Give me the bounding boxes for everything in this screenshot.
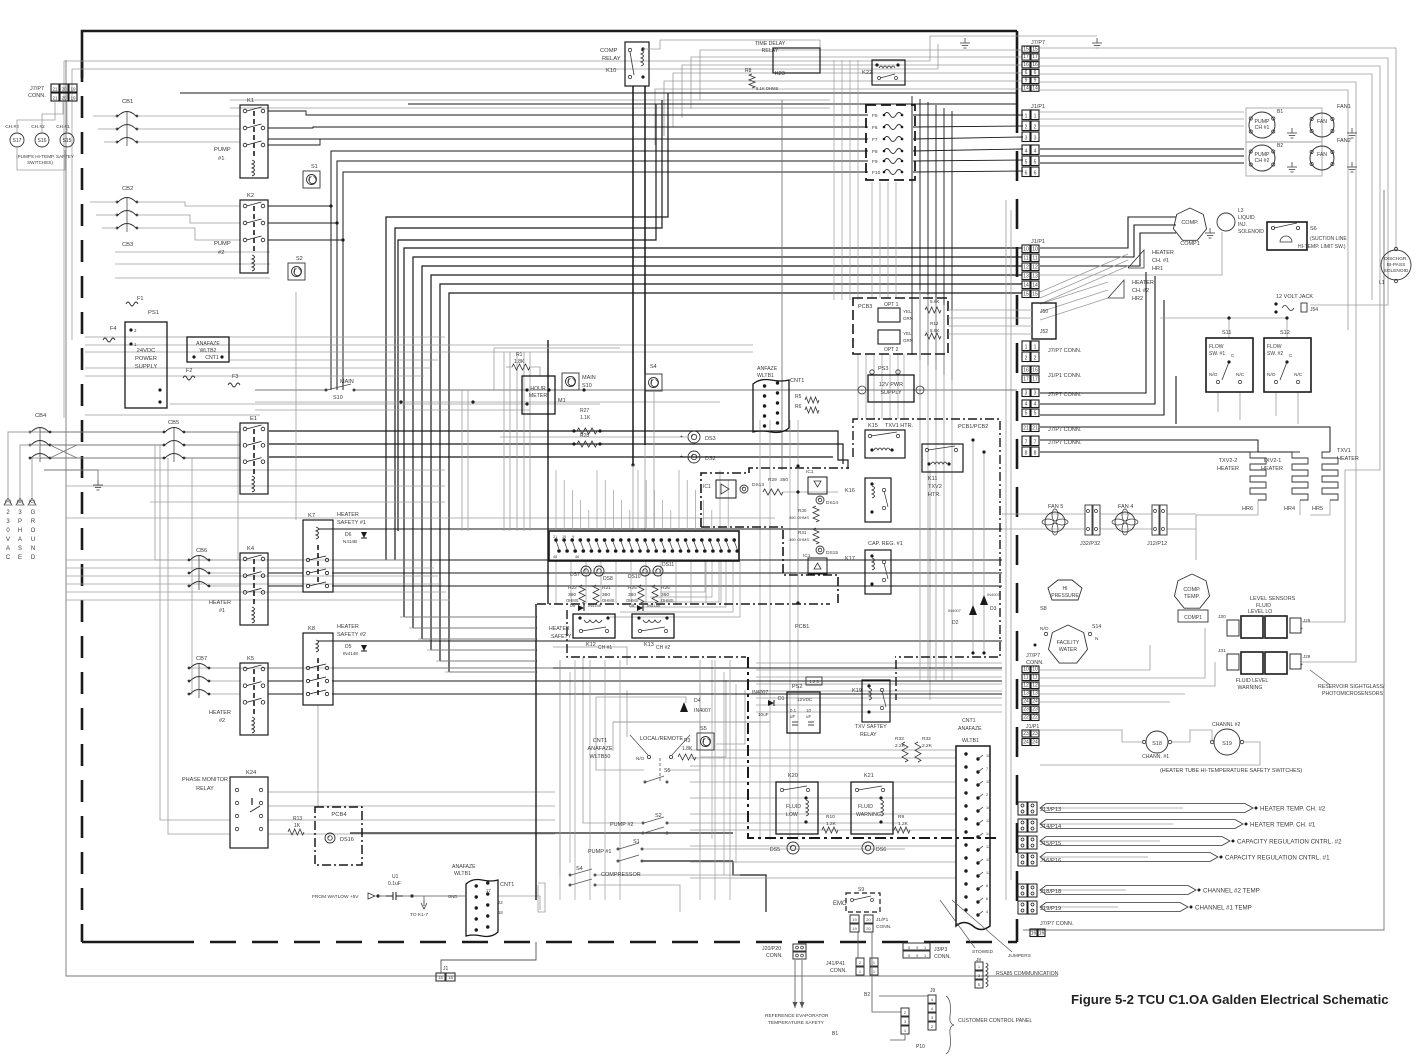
svg-text:R30: R30 <box>798 508 807 513</box>
svg-text:U1: U1 <box>392 874 399 880</box>
svg-text:4: 4 <box>986 910 988 914</box>
svg-text:LOCAL/REMOTE: LOCAL/REMOTE <box>640 736 683 742</box>
svg-text:3: 3 <box>1025 391 1028 397</box>
svg-text:PHASE MONITOR: PHASE MONITOR <box>182 777 228 783</box>
svg-text:+: + <box>680 434 683 440</box>
svg-text:C: C <box>1289 353 1293 359</box>
indicator DS11 <box>653 566 663 576</box>
wire WLTB50 risers below <box>555 561 557 604</box>
svg-text:J29: J29 <box>1303 654 1311 659</box>
svg-text:R3: R3 <box>684 738 691 744</box>
svg-text:+: + <box>1300 626 1303 632</box>
svg-text:WLTB2: WLTB2 <box>200 348 217 354</box>
wire K10 to right <box>643 40 820 49</box>
svg-text:K5: K5 <box>247 656 254 662</box>
wire left lower bundle to K12/K13 region <box>400 616 536 618</box>
svg-text:4: 4 <box>1025 402 1028 408</box>
svg-text:K17: K17 <box>845 556 855 562</box>
svg-text:DS5: DS5 <box>770 847 780 853</box>
svg-text:13: 13 <box>1023 691 1029 697</box>
svg-text:OHMS: OHMS <box>602 598 615 603</box>
svg-text:SW. #1: SW. #1 <box>1209 351 1225 357</box>
svg-text:IN4007: IN4007 <box>987 592 1001 597</box>
svg-text:ANAFAZE: ANAFAZE <box>587 746 612 752</box>
svg-text:F9: F9 <box>872 159 878 165</box>
svg-text:K12: K12 <box>586 642 596 648</box>
svg-text:K22: K22 <box>862 70 872 76</box>
svg-text:FLOW: FLOW <box>1267 344 1282 350</box>
svg-text:#1: #1 <box>219 608 225 614</box>
svg-text:K8: K8 <box>308 626 315 632</box>
svg-text:JUMPERS: JUMPERS <box>1008 953 1031 959</box>
svg-text:1 2 3: 1 2 3 <box>809 679 819 684</box>
svg-text:L1: L1 <box>1379 280 1385 286</box>
svg-text:15: 15 <box>1023 292 1029 298</box>
svg-text:DS8: DS8 <box>603 576 613 582</box>
flag HEATER TEMP. CH. #1 <box>1040 823 1173 825</box>
svg-text:5: 5 <box>908 954 910 958</box>
svg-text:S6: S6 <box>1310 226 1317 232</box>
svg-text:10: 10 <box>806 708 811 713</box>
wires CB2 to K2 <box>137 202 240 206</box>
svg-text:J54: J54 <box>1310 307 1318 313</box>
svg-text:N/O: N/O <box>1040 626 1049 632</box>
switch S5 lower contacts <box>644 781 647 784</box>
flag CAPACITY REGULATION CNTRL. #2 <box>1040 840 1160 842</box>
svg-text:IC1: IC1 <box>806 469 814 475</box>
svg-text:IN4007: IN4007 <box>948 608 962 613</box>
svg-text:3: 3 <box>1034 391 1037 397</box>
svg-text:SUPPLY: SUPPLY <box>135 364 158 370</box>
svg-text:3: 3 <box>1025 136 1028 142</box>
svg-text:HR6: HR6 <box>1242 506 1253 512</box>
svg-text:4: 4 <box>1025 149 1028 155</box>
svg-text:21: 21 <box>1023 426 1029 432</box>
svg-text:J7/P7 CONN.: J7/P7 CONN. <box>1048 392 1082 398</box>
svg-text:13: 13 <box>1023 274 1029 280</box>
svg-text:S5: S5 <box>700 726 707 732</box>
svg-text:K23: K23 <box>775 71 785 77</box>
wire main S10 lines <box>255 389 326 391</box>
diode D8 K12 <box>578 605 584 611</box>
svg-text:10: 10 <box>1023 667 1029 673</box>
svg-text:WARNING: WARNING <box>1238 685 1263 691</box>
svg-text:PUMP: PUMP <box>214 147 231 153</box>
svg-text:1: 1 <box>1025 114 1028 120</box>
svg-text:16: 16 <box>1032 368 1038 374</box>
PCB3 dashed box with optoisolators <box>853 298 948 354</box>
svg-text:2: 2 <box>1034 125 1037 131</box>
connector J13/P13 <box>1018 802 1027 815</box>
wire comp bundle from J1/P1 lower to COMP1 <box>1040 217 1176 248</box>
svg-text:17: 17 <box>486 888 491 893</box>
lamp DS6 <box>862 842 874 854</box>
svg-text:M1: M1 <box>558 398 566 404</box>
lamp DS5 <box>787 842 799 854</box>
svg-text:PS1: PS1 <box>148 310 159 316</box>
svg-text:2: 2 <box>1034 356 1037 362</box>
svg-text:PCB1/PCB2: PCB1/PCB2 <box>958 424 988 430</box>
svg-text:1: 1 <box>924 954 926 958</box>
svg-text:1.1K: 1.1K <box>580 415 591 421</box>
wire E1 outputs right with R27 R28 <box>269 431 848 469</box>
svg-text:18: 18 <box>448 975 453 980</box>
svg-text:CH #2: CH #2 <box>1255 158 1270 164</box>
svg-text:J30: J30 <box>1218 614 1226 620</box>
wire thick verticals to connector <box>632 86 634 465</box>
svg-text:11: 11 <box>1023 675 1028 681</box>
svg-text:J13/P13: J13/P13 <box>1040 807 1061 813</box>
wire nested L bundle to fuse rows <box>331 151 868 390</box>
wire bottom area verticals <box>559 660 561 900</box>
svg-text:R21: R21 <box>602 585 611 591</box>
hour meter M1 <box>522 376 555 414</box>
svg-text:17: 17 <box>1032 54 1038 60</box>
svg-text:5: 5 <box>1034 160 1037 166</box>
svg-text:COMP1: COMP1 <box>1180 241 1200 247</box>
svg-text:5.6K: 5.6K <box>930 328 940 333</box>
svg-text:DS7: DS7 <box>570 572 580 578</box>
wire TXV heater bottoms <box>1196 500 1258 560</box>
svg-text:S12: S12 <box>1280 330 1290 336</box>
lamp DS15 <box>816 546 824 554</box>
wire heater safety 1 line <box>318 528 1002 530</box>
svg-text:#2: #2 <box>218 250 224 256</box>
diode D4 IN4007 <box>680 702 688 712</box>
svg-text:PCB3: PCB3 <box>858 304 872 310</box>
svg-text:12: 12 <box>986 845 990 849</box>
svg-text:21: 21 <box>553 535 557 539</box>
svg-text:METER: METER <box>529 393 547 399</box>
svg-text:12VDC: 12VDC <box>797 697 813 703</box>
svg-text:J7/P7 CONN.: J7/P7 CONN. <box>1048 427 1082 433</box>
svg-text:1: 1 <box>924 946 926 950</box>
svg-text:S18: S18 <box>1152 741 1162 747</box>
compressor COMP1 <box>1173 208 1206 240</box>
svg-text:J12/P12: J12/P12 <box>1147 541 1167 547</box>
svg-text:POWER: POWER <box>135 356 157 362</box>
svg-text:LOW: LOW <box>786 812 798 818</box>
svg-text:TO K1-7: TO K1-7 <box>410 912 428 918</box>
enclosure dashed border <box>82 31 935 78</box>
svg-text:R13: R13 <box>293 816 302 822</box>
svg-text:TXV2-1: TXV2-1 <box>1263 458 1282 464</box>
svg-text:IC1: IC1 <box>703 484 711 490</box>
svg-text:EMO: EMO <box>833 901 847 907</box>
svg-text:6: 6 <box>1025 70 1028 76</box>
svg-text:CNT1: CNT1 <box>790 378 804 384</box>
wire K8 drop to PCB4 <box>317 705 319 807</box>
svg-text:IN4007: IN4007 <box>694 708 711 714</box>
svg-text:J7/P7 CONN.: J7/P7 CONN. <box>1048 348 1082 354</box>
wire vertical gray right pair <box>1005 200 1007 900</box>
svg-text:K13: K13 <box>644 642 654 648</box>
svg-text:CONN.: CONN. <box>830 968 847 974</box>
svg-text:14: 14 <box>1023 85 1029 91</box>
svg-text:TXV1: TXV1 <box>1337 448 1351 454</box>
connector P10 <box>901 1008 909 1016</box>
svg-text:1: 1 <box>1034 345 1037 351</box>
svg-text:HR5: HR5 <box>1312 506 1323 512</box>
svg-text:A: A <box>6 546 10 552</box>
wires S15-S17 <box>17 102 55 133</box>
svg-text:C: C <box>1231 353 1235 359</box>
svg-text:11: 11 <box>1032 675 1037 681</box>
svg-text:CH.#1: CH.#1 <box>56 124 70 130</box>
wire flow switch outputs down <box>1217 392 1219 412</box>
svg-text:PUMP #1: PUMP #1 <box>588 849 611 855</box>
svg-text:2: 2 <box>1025 125 1028 131</box>
svg-text:9: 9 <box>916 946 918 950</box>
svg-text:12 VOLT JACK: 12 VOLT JACK <box>1276 294 1313 300</box>
svg-text:12V PWR: 12V PWR <box>879 382 903 388</box>
wire top gray pair to grounds <box>64 36 1097 61</box>
svg-text:COMP: COMP <box>600 48 618 54</box>
svg-text:HEATER: HEATER <box>1217 466 1239 472</box>
svg-text:20: 20 <box>61 96 67 101</box>
fuse block F5-F10 dashed <box>866 105 915 180</box>
svg-text:B1: B1 <box>832 1031 838 1037</box>
wire mid band extra horizontals <box>170 403 600 405</box>
svg-text:J18/P18: J18/P18 <box>1040 889 1061 895</box>
svg-text:J3/P3: J3/P3 <box>934 947 947 953</box>
svg-text:TXV2-2: TXV2-2 <box>1219 458 1238 464</box>
svg-text:21: 21 <box>52 87 58 92</box>
connector J14/P14 <box>1018 819 1027 832</box>
svg-text:OHMS: OHMS <box>797 537 809 542</box>
svg-text:S15: S15 <box>63 138 72 144</box>
relay K11 TXV2 HTR <box>922 444 963 472</box>
svg-text:uF: uF <box>806 714 811 719</box>
svg-text:12: 12 <box>1023 683 1029 689</box>
svg-text:+: + <box>680 454 683 460</box>
svg-text:K24: K24 <box>246 770 257 776</box>
svg-text:K16: K16 <box>845 488 855 494</box>
svg-text:18: 18 <box>498 910 503 915</box>
svg-text:CH #1: CH #1 <box>1255 125 1270 131</box>
svg-text:J7/P7: J7/P7 <box>1031 40 1045 46</box>
svg-text:YEL: YEL <box>903 331 912 336</box>
svg-text:12: 12 <box>1023 265 1029 271</box>
svg-text:5: 5 <box>1034 411 1037 417</box>
svg-text:CNT1: CNT1 <box>500 882 514 888</box>
svg-text:RESERVOIR SIGHTGLASS/: RESERVOIR SIGHTGLASS/ <box>1318 684 1385 690</box>
svg-text:HI-TEMP. LIMIT SW.): HI-TEMP. LIMIT SW.) <box>1298 244 1346 250</box>
svg-text:ANAFAZE: ANAFAZE <box>196 341 220 347</box>
lamp DS16 <box>325 833 335 843</box>
svg-text:23: 23 <box>1023 707 1029 713</box>
wire J7P7 lower to level sensors <box>1040 645 1150 670</box>
wires PCB3 to J50 <box>948 309 1032 311</box>
svg-text:18: 18 <box>438 975 443 980</box>
svg-text:S: S <box>18 546 22 552</box>
svg-text:IN4148: IN4148 <box>343 651 358 656</box>
svg-text:J15/P15: J15/P15 <box>1040 841 1061 847</box>
PCB1/PCB2 dash-dot boundary <box>853 419 1000 657</box>
wires ABC input <box>8 432 40 498</box>
svg-text:DISCHGR.: DISCHGR. <box>1384 256 1407 262</box>
svg-text:7: 7 <box>1034 440 1037 446</box>
svg-text:CH.#2: CH.#2 <box>31 124 45 130</box>
svg-text:16: 16 <box>1023 368 1029 374</box>
svg-text:R22: R22 <box>568 585 577 591</box>
wire vertical pair center-left <box>63 61 65 418</box>
svg-text:22: 22 <box>1032 715 1038 721</box>
wire fuse to J1/P1 rows <box>913 114 1023 116</box>
svg-text:R5: R5 <box>795 394 802 400</box>
svg-text:12: 12 <box>1032 683 1038 689</box>
svg-text:N/O: N/O <box>1209 372 1218 378</box>
svg-text:TIME DELAY: TIME DELAY <box>755 41 786 47</box>
svg-text:DS13: DS13 <box>752 482 764 488</box>
svg-text:GRN: GRN <box>903 338 913 343</box>
svg-text:K11: K11 <box>928 476 937 482</box>
svg-text:24: 24 <box>1032 699 1038 705</box>
connector J7/P7 top-left pin table <box>51 84 59 92</box>
svg-text:IN4148: IN4148 <box>647 603 661 608</box>
svg-text:14: 14 <box>986 832 990 836</box>
svg-text:BI-PASS: BI-PASS <box>1387 262 1406 268</box>
svg-text:CONN.: CONN. <box>1026 660 1044 666</box>
svg-text:D4: D4 <box>694 698 701 704</box>
switch S17 <box>10 133 24 147</box>
svg-text:C: C <box>6 555 11 561</box>
svg-text:22: 22 <box>1023 715 1029 721</box>
svg-text:P: P <box>18 519 22 525</box>
svg-text:CH. #2: CH. #2 <box>1132 288 1149 294</box>
svg-text:6: 6 <box>1034 70 1037 76</box>
svg-text:FAN: FAN <box>1317 152 1327 158</box>
svg-text:CB3: CB3 <box>122 242 133 248</box>
wire WLTB50 pins up fan <box>555 470 557 531</box>
wire verticals fuse area down <box>833 60 835 300</box>
svg-text:K7: K7 <box>308 513 315 519</box>
svg-text:R31: R31 <box>798 530 807 535</box>
svg-text:LEVEL SENSORS: LEVEL SENSORS <box>1250 596 1296 602</box>
wire fuse block mid lines <box>268 138 868 140</box>
svg-text:16: 16 <box>1031 931 1037 937</box>
svg-text:HEATER: HEATER <box>209 710 231 716</box>
svg-text:D8: D8 <box>570 603 576 608</box>
svg-text:J19/P19: J19/P19 <box>1040 906 1061 912</box>
svg-text:TXV2: TXV2 <box>928 484 942 490</box>
svg-text:J1/P1: J1/P1 <box>1031 239 1045 245</box>
svg-text:COMPRESSOR: COMPRESSOR <box>601 872 641 878</box>
svg-text:SAFETY #1: SAFETY #1 <box>337 520 366 526</box>
optoisolator OPT2 <box>878 330 900 344</box>
svg-text:DS15: DS15 <box>826 550 838 556</box>
svg-text:16: 16 <box>986 806 990 810</box>
svg-text:HR2: HR2 <box>1132 296 1143 302</box>
svg-text:3: 3 <box>1034 136 1037 142</box>
svg-text:12: 12 <box>986 819 990 823</box>
svg-text:B2: B2 <box>1277 143 1283 149</box>
svg-text:F3: F3 <box>232 374 238 380</box>
svg-text:K10: K10 <box>606 68 616 74</box>
wire top bundle 2 <box>230 92 1017 94</box>
svg-text:E: E <box>18 555 22 561</box>
svg-text:CB7: CB7 <box>196 656 207 662</box>
svg-text:5.6K: 5.6K <box>930 299 940 304</box>
svg-text:5.1K OHMS: 5.1K OHMS <box>756 86 779 91</box>
svg-text:WLTB1: WLTB1 <box>962 738 979 744</box>
svg-text:WLTB1: WLTB1 <box>757 373 774 379</box>
diode D3 <box>980 595 988 605</box>
svg-text:9: 9 <box>1025 78 1028 84</box>
wire nested L bundle to J1/P1 table rows <box>404 248 1022 617</box>
svg-text:HEATER: HEATER <box>1337 456 1359 462</box>
svg-text:WARNING: WARNING <box>856 812 881 818</box>
svg-text:24: 24 <box>1023 740 1029 746</box>
svg-text:1: 1 <box>1025 345 1028 351</box>
svg-text:J29: J29 <box>1303 618 1311 623</box>
svg-text:G: G <box>31 510 36 516</box>
svg-text:HI: HI <box>1063 586 1068 592</box>
svg-text:CB4: CB4 <box>35 413 47 419</box>
svg-text:L3: L3 <box>1238 208 1244 214</box>
svg-text:HTR.: HTR. <box>928 492 941 498</box>
switch S16 <box>35 133 49 147</box>
svg-text:F1: F1 <box>137 296 143 302</box>
svg-text:21: 21 <box>52 96 58 101</box>
wire K5-K8 rows <box>268 667 303 669</box>
svg-text:20: 20 <box>61 87 67 92</box>
wire D2 D3 verticals <box>972 440 974 653</box>
svg-text:RSA85 COMMUNICATION: RSA85 COMMUNICATION <box>996 971 1059 977</box>
svg-text:A: A <box>18 537 22 543</box>
connector J3/P3 <box>903 943 930 950</box>
svg-text:1: 1 <box>1034 114 1037 120</box>
svg-text:COMP.: COMP. <box>1181 220 1199 226</box>
wire pump switch rows <box>667 822 900 824</box>
svg-text:20: 20 <box>866 917 871 922</box>
svg-text:48: 48 <box>553 555 557 559</box>
wire top bundle K1 to fuses <box>268 111 868 115</box>
svg-text:19: 19 <box>852 917 857 922</box>
svg-text:6: 6 <box>1034 171 1037 177</box>
wire S2 drop <box>295 292 297 520</box>
wires bottom connectors <box>857 932 859 958</box>
PCB4 dash-dot box <box>315 807 362 865</box>
wire y250 band left extension <box>115 251 270 253</box>
svg-text:F4: F4 <box>110 326 116 332</box>
svg-text:17: 17 <box>1032 377 1038 383</box>
wire phase monitor feeders <box>160 445 230 820</box>
svg-text:15: 15 <box>986 780 990 784</box>
PCB2 dash-dot boundary around K12 K13 <box>537 603 830 605</box>
input terminals A B C <box>4 498 12 505</box>
svg-text:D: D <box>31 555 36 561</box>
wire WLTB50 left risers <box>461 390 463 531</box>
svg-text:6: 6 <box>986 897 988 901</box>
svg-text:13: 13 <box>1032 691 1038 697</box>
svg-text:FLOW: FLOW <box>1209 344 1224 350</box>
svg-text:HEATER: HEATER <box>209 600 231 606</box>
svg-text:DS14: DS14 <box>826 500 838 506</box>
wire left feeders down <box>155 445 189 560</box>
svg-text:CNT1: CNT1 <box>962 718 976 724</box>
connector J7/P7 mid rows 1 2 <box>1022 341 1030 351</box>
svg-text:J1/P1 CONN.: J1/P1 CONN. <box>1048 373 1082 379</box>
svg-text:R25: R25 <box>628 585 637 591</box>
diode D8 K13 <box>637 605 643 611</box>
svg-text:K4: K4 <box>247 546 255 552</box>
svg-text:10uF: 10uF <box>758 712 769 717</box>
svg-text:1.2K: 1.2K <box>898 821 909 827</box>
motor B2 pump ch2 <box>1246 142 1322 176</box>
wire center loop around local/remote <box>583 657 641 823</box>
svg-text:2: 2 <box>986 793 988 797</box>
